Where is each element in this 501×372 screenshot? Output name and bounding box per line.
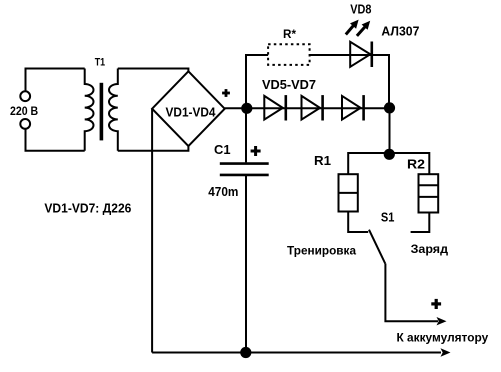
wire	[389, 153, 429, 174]
wire	[151, 109, 153, 353]
LED VD8 emission arrows	[346, 20, 370, 36]
resistor R* (dashed)	[268, 44, 310, 65]
junction	[384, 102, 395, 113]
wire	[26, 129, 85, 151]
wire	[348, 212, 368, 233]
AC terminal (top)	[20, 91, 30, 101]
svg-text:T1: T1	[95, 56, 105, 68]
wire	[245, 176, 247, 353]
capacitor C1	[220, 164, 269, 175]
junction	[240, 347, 251, 358]
svg-text:VD5-VD7: VD5-VD7	[262, 78, 316, 92]
wire	[348, 153, 389, 174]
capacitor C1 wire	[245, 108, 247, 162]
wire	[385, 264, 438, 322]
wire	[225, 107, 390, 109]
label + (C1 polarity)	[251, 146, 261, 156]
output arrow head	[437, 317, 447, 325]
wire	[246, 55, 389, 108]
switch S1 blade	[369, 230, 385, 264]
transformer T1 primary winding	[85, 69, 94, 151]
wire	[118, 69, 189, 73]
svg-text:VD8: VD8	[350, 1, 371, 16]
transformer T1 secondary winding	[109, 69, 118, 151]
AC terminal (bottom)	[20, 119, 30, 129]
junction	[241, 103, 252, 114]
resistor R1	[339, 174, 358, 211]
wire	[389, 108, 391, 154]
diode VD6	[302, 95, 323, 120]
svg-text:VD1-VD4: VD1-VD4	[166, 104, 217, 119]
svg-text:R*: R*	[283, 27, 296, 41]
label + (bridge output)	[222, 89, 230, 97]
wire	[411, 213, 430, 233]
ground rail arrow head	[441, 348, 451, 356]
svg-text:R1: R1	[314, 153, 331, 168]
svg-text:470m: 470m	[208, 184, 238, 199]
LED VD8	[350, 42, 372, 68]
junction	[384, 149, 395, 160]
resistor R2	[419, 174, 439, 212]
ground rail wire	[152, 352, 441, 354]
svg-text:АЛ307: АЛ307	[381, 24, 419, 39]
svg-text:220 В: 220 В	[10, 104, 38, 118]
diode VD7	[342, 95, 364, 120]
transformer T1 core	[100, 83, 104, 141]
svg-text:R2: R2	[407, 157, 425, 172]
svg-text:C1: C1	[214, 142, 231, 157]
wire	[26, 69, 85, 92]
diode VD5	[264, 95, 286, 120]
svg-text:S1: S1	[381, 209, 395, 224]
wire	[118, 146, 189, 151]
svg-text:VD1-VD7: Д226: VD1-VD7: Д226	[44, 201, 131, 215]
bridge rectifier VD1-VD4	[152, 71, 225, 146]
svg-text:Тренировка: Тренировка	[287, 244, 356, 258]
svg-text:К аккумулятору: К аккумулятору	[397, 331, 489, 345]
label + (output)	[431, 299, 441, 309]
svg-text:Заряд: Заряд	[411, 242, 449, 256]
